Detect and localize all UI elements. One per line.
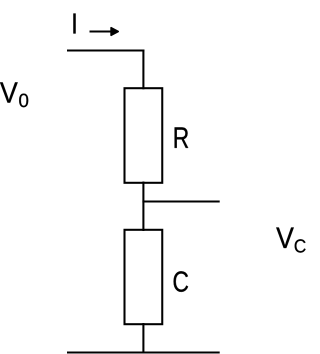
capacitor C [125,230,163,324]
wire capacitor bottom to return rail [142,323,144,353]
net label V0 [0,82,28,107]
label R [175,127,189,147]
current direction arrow [90,28,119,36]
wire resistor bottom to capacitor top [142,182,144,232]
wire from V0 source to resistor top [67,50,144,90]
net label VC [276,228,305,253]
wire stub at node VC [142,201,219,203]
label I (current) [73,14,75,34]
bottom wire (return rail) [67,351,220,353]
label C [174,271,189,292]
resistor R [125,88,163,183]
